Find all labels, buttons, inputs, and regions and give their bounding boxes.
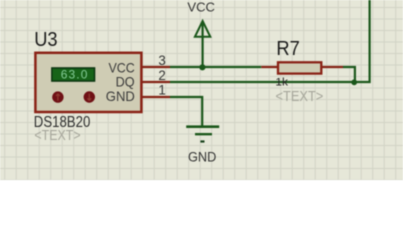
svg-text:<TEXT>: <TEXT> [276,89,324,105]
svg-text:DQ: DQ [116,75,135,90]
svg-text:1k: 1k [275,76,288,88]
svg-text:R7: R7 [276,37,299,60]
svg-text:GND: GND [188,150,217,165]
svg-text:GND: GND [106,89,135,104]
svg-text:VCC: VCC [109,60,135,75]
svg-text:VCC: VCC [187,0,215,15]
svg-text:U3: U3 [34,28,57,51]
svg-text:63.0: 63.0 [61,67,88,81]
svg-text:3: 3 [158,52,166,68]
svg-text:1: 1 [158,82,166,98]
svg-text:2: 2 [158,67,166,83]
svg-text:<TEXT>: <TEXT> [34,128,80,144]
